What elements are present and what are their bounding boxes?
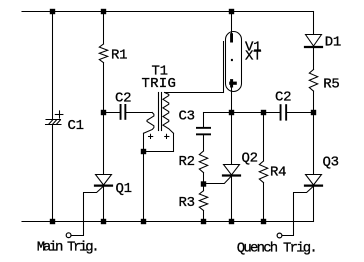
- node junction bottom bus / R4: [261, 219, 266, 224]
- resistor R4: [259, 161, 267, 183]
- terminal Quench Trig.: [277, 233, 282, 238]
- wire mid net (C3 corner to Q2 node): [204, 112, 232, 114]
- label R5: [323, 77, 339, 93]
- svg-text:C3: C3: [179, 109, 195, 125]
- transformer T1 polarity dot right: [165, 134, 169, 138]
- transformer T1 core: [159, 93, 162, 131]
- label T1: [152, 64, 168, 80]
- label Q1: [116, 181, 132, 197]
- wire T1 secondary top lead to trigger wire: [165, 92, 224, 94]
- transformer T1 secondary winding (right, 4 bumps): [163, 93, 174, 134]
- wire Q2 gate: [204, 176, 232, 184]
- wire C1 column upper (bus to C1): [52, 12, 54, 120]
- wire Q3 anode lead: [313, 113, 315, 175]
- node junction bottom bus / C1: [50, 219, 55, 224]
- wire R2 bottom lead: [203, 173, 205, 184]
- node junction top bus / V1 column: [229, 9, 234, 14]
- svg-text:Q2: Q2: [242, 151, 258, 167]
- node junction mid net / V1-Q2: [229, 110, 234, 115]
- transformer T1 polarity dot left: [149, 134, 153, 138]
- svg-text:D1: D1: [325, 35, 341, 51]
- wire C3 bottom lead to R2: [203, 135, 205, 151]
- capacitor C2 (left): [120, 104, 127, 120]
- wire V1 cathode lead to mid net: [231, 86, 233, 113]
- wire top bus: [22, 11, 314, 13]
- label TRIG: [142, 76, 177, 92]
- label Main Trig.: [37, 240, 98, 256]
- node junction bottom bus / R3: [201, 219, 206, 224]
- label C3: [179, 109, 195, 125]
- svg-text:R5: R5: [323, 77, 339, 93]
- node junction top bus / C1 column: [50, 9, 55, 14]
- resistor R1: [99, 44, 107, 63]
- wire T1 common to bottom bus: [143, 152, 145, 222]
- node junction bottom bus / Q2: [229, 219, 234, 224]
- wire C2 right lead to T1 primary: [126, 112, 152, 114]
- svg-text:TRIG: TRIG: [142, 76, 177, 92]
- label XT: [245, 48, 261, 64]
- wire Q3 gate: [282, 186, 314, 235]
- wire R4 top lead: [263, 113, 265, 162]
- label R4: [270, 164, 286, 180]
- node junction right rail / C2: [311, 110, 316, 115]
- label R3: [179, 195, 195, 211]
- wire R1 bottom lead to node: [103, 63, 105, 113]
- wire R5 bottom lead to node: [313, 91, 315, 112]
- resistor R5: [309, 70, 317, 92]
- wire C3 top lead: [203, 113, 205, 128]
- node junction R1/C2/Q1: [101, 110, 106, 115]
- tube V1 gas dot: [231, 59, 233, 61]
- label C2 (left): [115, 90, 131, 106]
- thyristor Q1: [95, 175, 112, 186]
- wire Q3 cathode to bottom bus: [313, 187, 315, 222]
- wire mid net (Q2 node to R4 node): [232, 112, 264, 114]
- wire R3 top lead: [203, 184, 205, 191]
- svg-text:C2: C2: [115, 90, 131, 106]
- tube V1 envelope: [226, 32, 242, 92]
- wire C2 left lead: [104, 112, 120, 114]
- wire Q1 cathode to bottom bus: [103, 187, 105, 222]
- wire R1 top lead: [103, 12, 105, 45]
- wire Q2 anode lead: [231, 113, 233, 165]
- wire Q1 gate: [71, 186, 103, 235]
- label Q3: [323, 155, 339, 171]
- wire R3 bottom lead: [203, 211, 205, 222]
- label R1: [111, 48, 127, 64]
- tube V1 trigger wire: [223, 42, 225, 93]
- wire Q2 cathode to bottom bus: [231, 177, 233, 222]
- svg-text:Main Trig.: Main Trig.: [37, 240, 98, 256]
- svg-text:Q3: Q3: [323, 155, 339, 171]
- svg-text:R4: R4: [270, 164, 286, 180]
- capacitor C3: [196, 127, 211, 135]
- svg-text:XT: XT: [245, 48, 261, 64]
- tube V1 bottom electrode: [229, 79, 237, 87]
- svg-text:Q1: Q1: [116, 181, 132, 197]
- svg-text:C1: C1: [68, 118, 84, 134]
- wire C1 column lower (C1 to bottom bus): [52, 125, 54, 222]
- wire mid net (R4 node to C2 right): [264, 112, 280, 114]
- node junction mid net / R4: [261, 110, 266, 115]
- wire bottom bus: [22, 221, 314, 223]
- resistor R3: [199, 191, 207, 211]
- wire right rail top (bus corner down to D1): [313, 12, 315, 35]
- transformer T1 common box: [144, 133, 174, 151]
- capacitor C1: [46, 111, 63, 125]
- svg-text:C2: C2: [275, 89, 291, 105]
- resistor R2: [199, 151, 207, 173]
- label Q2: [242, 151, 258, 167]
- svg-text:Quench Trig.: Quench Trig.: [237, 241, 316, 257]
- node junction R2/R3/Q2 gate: [201, 181, 206, 186]
- transformer T1 primary winding (left, 2 bumps): [144, 113, 154, 134]
- label C2 (right): [275, 89, 291, 105]
- wire Q1 anode lead: [103, 113, 105, 175]
- svg-text:R1: R1: [111, 48, 127, 64]
- label R2: [179, 154, 195, 170]
- label Quench Trig.: [237, 241, 316, 257]
- node junction bottom bus / T1 common: [141, 219, 146, 224]
- terminal Main Trig.: [66, 233, 71, 238]
- diode D1: [305, 35, 322, 48]
- node junction top bus / R1 column: [101, 9, 106, 14]
- wire D1 cathode to R5: [313, 48, 315, 69]
- label D1: [325, 35, 341, 51]
- svg-text:R2: R2: [179, 154, 195, 170]
- capacitor C2 (right): [280, 104, 288, 120]
- label V1: [245, 40, 261, 56]
- label C1: [68, 118, 84, 134]
- svg-text:R3: R3: [179, 195, 195, 211]
- wire C2 right lead to right rail: [287, 112, 313, 114]
- thyristor Q2: [223, 165, 240, 176]
- wire R4 bottom lead: [263, 183, 265, 222]
- node junction bottom bus / Q1: [101, 219, 106, 224]
- tube V1 top electrode: [230, 33, 233, 42]
- wire V1 anode lead: [231, 12, 233, 34]
- node junction T1 common: [141, 149, 146, 154]
- thyristor Q3: [305, 175, 322, 186]
